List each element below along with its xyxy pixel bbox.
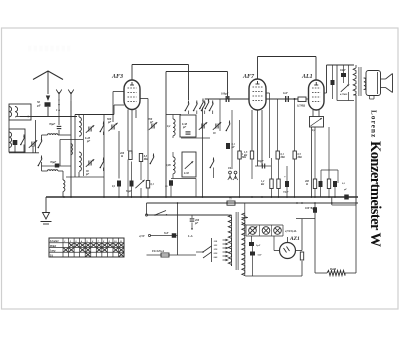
aerial terminal 1A bbox=[58, 92, 60, 101]
wire coupling to filter bbox=[35, 120, 37, 153]
tube AL1 bbox=[309, 80, 325, 110]
capacitor 0.1uF AF3 bbox=[117, 181, 121, 187]
svg-text:pF: pF bbox=[149, 121, 153, 124]
resistor small AF3 bbox=[146, 181, 149, 189]
variable cap osc 2 bbox=[215, 124, 217, 129]
oscillator coil vertical bbox=[62, 171, 64, 180]
tube AF3 bbox=[124, 80, 140, 110]
switch contact osc b bbox=[38, 165, 40, 167]
switch contact AF3 cathode bbox=[150, 163, 152, 165]
wire filter left vertical bbox=[74, 115, 76, 178]
wire osc vertical bbox=[165, 72, 167, 198]
svg-text:1nF: 1nF bbox=[283, 92, 288, 95]
svg-text:11: 11 bbox=[120, 240, 122, 243]
resistor 1Mohm mid bbox=[238, 151, 241, 159]
wire AF3 bias verticals bbox=[127, 160, 129, 198]
capacitor 50pF coupling bbox=[255, 165, 271, 167]
wire B+ line bbox=[296, 218, 315, 220]
resistor row box2 bbox=[277, 179, 280, 189]
wire filter bottom bbox=[66, 176, 104, 178]
switch contact osc a bbox=[41, 135, 43, 138]
switch contacts grid bbox=[199, 108, 201, 110]
resistor EULEGA bbox=[161, 253, 169, 257]
coil L2 box bbox=[9, 129, 25, 152]
wire 500pF vertical bbox=[118, 131, 120, 179]
pilot lamp 2 bbox=[262, 227, 270, 235]
wire transformer bottom long bbox=[355, 95, 357, 205]
variable resistor 4.7M bbox=[341, 84, 349, 92]
wire filter right vertical bbox=[103, 115, 105, 198]
trimmer 6-28pF upper bbox=[88, 127, 90, 132]
tube AZ1 bbox=[280, 243, 296, 259]
svg-text:kΩ: kΩ bbox=[244, 154, 247, 157]
svg-text:70µF: 70µF bbox=[49, 123, 55, 126]
wire osc mid bbox=[181, 137, 210, 139]
svg-text:pF: pF bbox=[85, 173, 89, 176]
wire osc row1 coil bbox=[42, 134, 48, 136]
svg-text:TA: TA bbox=[228, 167, 232, 170]
svg-text:50pF: 50pF bbox=[258, 160, 264, 163]
switch contact L2 bbox=[20, 144, 22, 146]
wire field loop bbox=[331, 197, 333, 205]
capacitor row blob2 bbox=[333, 181, 337, 187]
wire horizontal antenna bus bbox=[20, 116, 77, 118]
resistor 0.7Mohm bbox=[298, 97, 306, 102]
wire transformer primary top bbox=[228, 214, 232, 216]
svg-text:Lang: Lang bbox=[49, 250, 56, 253]
resistor 75ohm bus bbox=[227, 201, 235, 205]
capacitor 100pF bbox=[225, 96, 227, 102]
switch contact filter lower bbox=[100, 167, 102, 169]
wire top bus 3 bbox=[258, 56, 317, 58]
capacitor 50uF AF3 bbox=[130, 181, 134, 187]
wire lamp box bbox=[246, 224, 283, 226]
heater tap arrows bbox=[242, 217, 249, 219]
wire 0.5M vertical bbox=[294, 99, 296, 151]
svg-text:AF3: AF3 bbox=[111, 74, 123, 80]
svg-text:50µF: 50µF bbox=[283, 191, 289, 194]
svg-text:Konzertmeister W: Konzertmeister W bbox=[367, 141, 383, 247]
wire B+ vertical bbox=[314, 203, 316, 273]
resistor 0.5Mohm bbox=[293, 151, 296, 159]
svg-text:Ω: Ω bbox=[121, 155, 123, 158]
bandfilter coil L3 bbox=[79, 117, 81, 136]
wire mid vertical 1 bbox=[202, 108, 204, 198]
pilot lamp 1 bbox=[249, 227, 257, 235]
svg-text:Mittel: Mittel bbox=[49, 245, 57, 248]
svg-text:+: + bbox=[284, 175, 286, 179]
resistor row box3 bbox=[327, 179, 330, 189]
svg-text:L.A: L.A bbox=[187, 234, 193, 238]
wire mid vertical 4 bbox=[239, 120, 241, 151]
capacitor 50pF antenna bbox=[45, 102, 51, 107]
svg-text:MΩ: MΩ bbox=[297, 156, 302, 159]
capacitor 70pF osc2 bbox=[55, 164, 60, 168]
svg-text:Lorenz: Lorenz bbox=[370, 110, 378, 138]
pilot lamp 3 bbox=[274, 227, 282, 235]
svg-text:µF: µF bbox=[36, 104, 41, 108]
band switch contacts bbox=[185, 110, 187, 112]
capacitor 5uF rect bbox=[249, 242, 254, 246]
padder box upper bbox=[180, 115, 196, 137]
wire AZ1 output bbox=[296, 250, 303, 252]
svg-text:pF: pF bbox=[194, 222, 198, 225]
svg-text:4,7MΩ: 4,7MΩ bbox=[339, 93, 347, 96]
ground symbol bbox=[45, 197, 47, 212]
field coil Feld bbox=[315, 272, 327, 274]
capacitor 200pF LA bbox=[191, 215, 193, 218]
wire osc bottom bbox=[171, 178, 196, 180]
switch position table bbox=[49, 238, 124, 257]
ground bus bbox=[46, 196, 358, 198]
wire AL1 plate top bbox=[327, 64, 355, 66]
aerial coil on down wire bbox=[71, 144, 73, 155]
wire AF7 topcap bbox=[257, 57, 259, 80]
trimmer 6-28pF lower bbox=[88, 161, 90, 166]
switch contact filter upper bbox=[100, 131, 102, 133]
oscillator coil 0.08 bbox=[173, 157, 175, 174]
feedback box AL1 bbox=[310, 117, 324, 128]
wire antenna down bbox=[47, 107, 49, 117]
capacitor 50uF osc bbox=[169, 180, 173, 186]
svg-text:5nF: 5nF bbox=[258, 254, 263, 257]
capacitor 5nF rect bbox=[250, 252, 255, 256]
svg-text:1 A: 1 A bbox=[56, 108, 60, 112]
svg-text:4,5V/0,4A: 4,5V/0,4A bbox=[284, 230, 297, 233]
tone capacitor branch bbox=[332, 65, 334, 80]
bandfilter coil L4 bbox=[79, 152, 81, 171]
wire tone verticals bbox=[343, 65, 345, 73]
tube AL1 leads bbox=[312, 110, 314, 117]
svg-text:5nF: 5nF bbox=[164, 232, 169, 235]
oscillator coil row2 bbox=[41, 166, 43, 171]
wire mid vertical 2 bbox=[219, 99, 221, 131]
tuning capacitor 500pF bbox=[111, 125, 113, 130]
svg-text:6-38: 6-38 bbox=[184, 172, 189, 175]
svg-text:100+8µF: 100+8µF bbox=[305, 207, 316, 210]
tube AF7 bbox=[249, 79, 266, 110]
svg-text:Schalter: Schalter bbox=[50, 240, 60, 243]
capacitor in L2 box bbox=[13, 140, 18, 145]
heater wire switch bbox=[147, 214, 229, 216]
svg-text:70µF: 70µF bbox=[50, 161, 56, 164]
wire AZ1 left lead bbox=[273, 236, 275, 251]
capacitor 1nF bbox=[285, 96, 287, 102]
output transformer bbox=[353, 68, 356, 95]
svg-text:220: 220 bbox=[213, 252, 219, 255]
svg-text:5µF: 5µF bbox=[256, 244, 261, 247]
speaker bbox=[366, 71, 381, 96]
wire AL1 topcap bbox=[315, 57, 317, 81]
variable resistor AF3 cathode bbox=[135, 180, 144, 188]
power transformer core bbox=[235, 212, 237, 270]
antenna coupling coil T1 bbox=[9, 104, 31, 120]
tone loop bbox=[336, 65, 338, 101]
svg-text:MΩ: MΩ bbox=[280, 156, 285, 159]
wire top bus 1 bbox=[132, 64, 189, 66]
svg-text:4,5V: 4,5V bbox=[138, 234, 146, 238]
svg-text:0,08: 0,08 bbox=[166, 164, 171, 167]
antenna bbox=[33, 71, 63, 80]
wire EULEGA line bbox=[147, 254, 197, 256]
oscillator coil 0.2 bbox=[173, 119, 175, 136]
wire AF3 right tap bbox=[140, 98, 148, 100]
power transformer primary bbox=[228, 215, 231, 266]
padder box lower bbox=[182, 152, 196, 177]
wire L2 verticals bbox=[8, 120, 10, 129]
wire top bus 2 bbox=[166, 71, 228, 73]
svg-text:Ω: Ω bbox=[306, 183, 308, 186]
svg-text:1: 1 bbox=[64, 240, 65, 243]
wire to AL1 grid bbox=[306, 98, 309, 100]
svg-text:AL1: AL1 bbox=[301, 74, 313, 80]
capacitor bus blob bbox=[344, 195, 349, 200]
wire AF3 screen tap bbox=[114, 104, 124, 106]
svg-text:µF: µF bbox=[231, 146, 235, 149]
svg-text:AZ1: AZ1 bbox=[289, 236, 300, 242]
wire aerial2 down bbox=[70, 101, 72, 197]
resistor AZ1 right bbox=[300, 252, 303, 260]
capacitor 0.1uF mid bbox=[226, 143, 230, 149]
terminals TA bbox=[229, 171, 232, 174]
resistor 0.1Mohm bbox=[276, 151, 279, 159]
capacitor 8uF B+ bbox=[313, 207, 317, 213]
wire top bus 1 drop bbox=[188, 65, 190, 101]
svg-text:░░░░░░░░: ░░░░░░░░ bbox=[28, 45, 72, 52]
svg-text:10nF: 10nF bbox=[340, 69, 346, 72]
supply bus 2 bbox=[147, 202, 359, 204]
svg-text:µF: µF bbox=[343, 188, 347, 191]
mains selector bbox=[211, 238, 213, 262]
wire filter mid bbox=[60, 139, 83, 141]
wire rect bottom bbox=[245, 275, 302, 277]
wire mid vertical 3 bbox=[231, 110, 233, 169]
svg-text:pF: pF bbox=[86, 140, 90, 143]
resistor 0.3Mohm bbox=[139, 154, 142, 162]
capacitor 5uF bbox=[319, 181, 323, 187]
trimmer arrow L2 bbox=[31, 142, 33, 147]
switch contact osc right bbox=[226, 130, 228, 132]
wire transformer top bbox=[355, 65, 357, 68]
svg-text:0,1: 0,1 bbox=[342, 182, 345, 185]
wire heater mid bbox=[150, 235, 178, 237]
svg-text:100pF: 100pF bbox=[221, 93, 229, 96]
wire AF7 plate line bbox=[266, 98, 298, 100]
wire bus2 left drop bbox=[146, 203, 148, 215]
junction dots bus2 bbox=[177, 202, 179, 204]
svg-text:pF: pF bbox=[182, 126, 186, 129]
variable cap osc 1 bbox=[201, 124, 203, 129]
wire cathode bridge bbox=[321, 169, 338, 171]
svg-text:MΩ: MΩ bbox=[143, 158, 148, 161]
wire filter top bbox=[75, 114, 114, 116]
power transformer secondary bbox=[242, 213, 245, 276]
wire AF7 side tap bbox=[266, 92, 270, 94]
wire AF7 grid drop bbox=[227, 72, 229, 100]
wire AF3 topcap bbox=[131, 65, 133, 81]
wire L2 bottom bbox=[9, 152, 39, 154]
svg-text:TA: TA bbox=[50, 254, 53, 257]
wire AL1 bottom verticals bbox=[311, 127, 313, 197]
wire row verticals bbox=[271, 158, 273, 179]
junction dots bus1 bbox=[63, 196, 65, 198]
svg-text:240: 240 bbox=[213, 256, 219, 259]
wire vertical 177 bbox=[177, 203, 179, 255]
capacitor 70pF antenna series bbox=[58, 106, 60, 125]
mains taps bbox=[223, 239, 229, 241]
tube AF3 leads bbox=[127, 110, 129, 152]
wire osc row2 bbox=[41, 162, 43, 166]
svg-text:AF7: AF7 bbox=[242, 74, 255, 80]
switch arrow in T1 bbox=[17, 116, 30, 118]
svg-text:0,7MΩ: 0,7MΩ bbox=[297, 105, 306, 108]
svg-text:pF: pF bbox=[107, 121, 111, 124]
wire AL1 plate bbox=[324, 92, 327, 94]
capacitor 700pF trimmer bbox=[151, 124, 153, 129]
wire AF7 grid line bbox=[205, 98, 249, 100]
aerial terminal 2 bbox=[70, 92, 72, 101]
svg-text:Feld: Feld bbox=[330, 267, 336, 271]
svg-text:kΩ: kΩ bbox=[261, 183, 264, 186]
wire AF3 grid tap bbox=[113, 91, 124, 93]
tube AF7 leads bbox=[251, 110, 253, 151]
wire 1nF junction bbox=[277, 99, 279, 151]
switch contact lower mid bbox=[210, 167, 212, 169]
